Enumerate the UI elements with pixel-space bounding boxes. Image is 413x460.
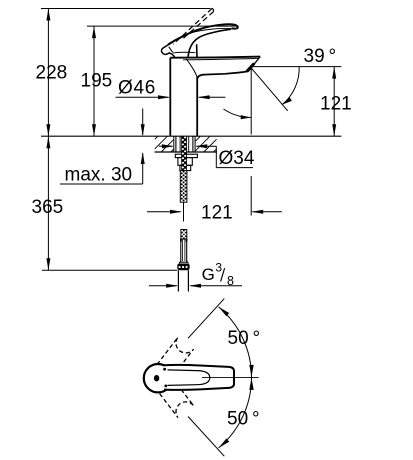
swivel arc upper arrow at slant xyxy=(219,307,230,316)
faucet body right edge xyxy=(196,77,198,136)
swivel arc lower arrow at slant xyxy=(219,439,230,448)
dimension G38 left arrow line xyxy=(149,285,177,287)
svg-text:Ø34: Ø34 xyxy=(219,148,255,169)
wire 195 extension line xyxy=(87,25,236,27)
dimension 121 bottom arrow xyxy=(332,124,336,136)
counter deck bottom line xyxy=(155,151,218,153)
dimension D34 right arrow line xyxy=(196,145,216,147)
spout top inner line xyxy=(183,58,258,59)
dimension 121 top arrow xyxy=(332,67,336,79)
dimension D34 leader corner xyxy=(215,146,217,167)
dimension 228 top arrow xyxy=(46,9,50,21)
handle lever inner line xyxy=(193,28,232,32)
rotated handle dashed lower xyxy=(155,376,193,417)
svg-text:228: 228 xyxy=(36,63,68,84)
handle top view lever outline xyxy=(164,365,234,390)
hose thin section xyxy=(183,202,185,221)
dimension D46 right arrow xyxy=(198,95,210,99)
dimension 195 top arrow xyxy=(92,26,96,38)
spout outlet vertical extension line upper xyxy=(250,68,252,135)
svg-text:50 °: 50 ° xyxy=(228,328,261,349)
svg-text:50 °: 50 ° xyxy=(227,409,260,430)
dimension D46 right arrow line xyxy=(199,96,226,98)
threaded stud xyxy=(181,136,187,171)
dimension 121 bottom right arrow line xyxy=(253,211,282,213)
raised handle dashed upper edge xyxy=(173,8,212,44)
hose connector tube xyxy=(179,239,189,263)
mounting nut lower xyxy=(180,165,191,170)
spout underside with fillet xyxy=(197,71,247,79)
connector knurled nut xyxy=(177,264,189,271)
braided hose lower xyxy=(181,230,187,240)
spout front face xyxy=(248,57,260,72)
dimension D34 left arrow xyxy=(162,144,174,148)
swivel arc lower xyxy=(219,377,252,448)
dimension max30 leader lower xyxy=(142,153,144,184)
svg-text:Ø46: Ø46 xyxy=(118,78,156,99)
handle skirt line xyxy=(173,51,196,54)
dimension G38 left arrow xyxy=(166,284,178,288)
dimension 228 line xyxy=(47,9,49,137)
swivel arc lower arrow at centerline xyxy=(249,378,253,390)
dimension max30 lower arrow xyxy=(141,152,145,164)
stream direction arc arrow xyxy=(241,115,251,119)
dimension D34 underline xyxy=(216,167,253,169)
handle grip curl xyxy=(161,45,174,58)
svg-text:8: 8 xyxy=(227,274,234,288)
handle centerline xyxy=(202,376,259,378)
handle top view slot xyxy=(154,375,159,381)
swivel arc upper arrow at centerline xyxy=(249,365,253,377)
rotated handle dashed upper xyxy=(155,337,193,378)
raised handle dashed tip xyxy=(212,8,214,11)
handle neck right edge xyxy=(196,44,198,57)
dimension 195 bottom arrow xyxy=(92,124,96,136)
svg-text:G: G xyxy=(202,265,215,284)
wire top extension line (228 level) xyxy=(41,8,211,10)
stream direction arc xyxy=(224,109,251,118)
handle lever underside xyxy=(188,29,231,57)
dimension max30 upper arrow xyxy=(141,124,145,136)
39 degree slant reference line xyxy=(251,68,288,111)
aerator slot xyxy=(247,63,254,71)
swivel slant line lower xyxy=(188,417,224,457)
dimension max30 underline xyxy=(60,183,143,185)
dimension 365 bottom arrow xyxy=(46,258,50,270)
deck hatching right xyxy=(195,136,216,152)
svg-text:3: 3 xyxy=(215,261,222,275)
bottom extension line (365 level) xyxy=(42,269,177,271)
handle top view inner face xyxy=(168,370,210,386)
svg-text:195: 195 xyxy=(81,71,113,92)
handle top view dot upper xyxy=(163,368,166,371)
dimension 365 line xyxy=(47,136,49,270)
raised handle dashed lower edge xyxy=(182,12,214,41)
deck hole edges xyxy=(173,136,175,152)
spout outlet horizontal reference line xyxy=(251,66,341,68)
mounting nut upper xyxy=(178,158,192,166)
dimension 121 vertical line xyxy=(333,67,335,137)
svg-text:max. 30: max. 30 xyxy=(65,165,133,186)
dimension D34 left arrow line xyxy=(159,145,173,147)
handle top view dot lower xyxy=(164,385,167,388)
dimension 121 bottom left arrow xyxy=(170,210,182,214)
dimension 195 line xyxy=(93,26,95,136)
dimension 121 bottom right arrow xyxy=(251,210,263,214)
svg-text:39 °: 39 ° xyxy=(304,46,337,67)
dimension D46 left arrow xyxy=(158,95,170,99)
body spout junction curve xyxy=(186,59,197,78)
dimension 228 bottom arrow xyxy=(46,124,50,136)
handle top view head xyxy=(144,364,172,392)
faucet body left edge xyxy=(169,58,171,137)
G38 thread cylinder xyxy=(177,270,179,291)
dimension 365 top arrow xyxy=(46,136,50,148)
dimension D34 right arrow xyxy=(195,144,207,148)
dimension G38 right arrow line / underline xyxy=(190,285,242,287)
dimension D46 leader line xyxy=(116,96,169,98)
swivel slant line upper xyxy=(188,299,224,339)
svg-text:121: 121 xyxy=(320,94,352,115)
39 degree angle arc xyxy=(282,66,299,104)
spout top line xyxy=(170,57,260,58)
spout outlet vertical extension line lower xyxy=(250,176,252,216)
counter deck top line xyxy=(41,135,341,137)
39 degree arc arrow xyxy=(282,97,292,104)
deck hatching left xyxy=(155,136,174,152)
braided hose upper xyxy=(180,171,187,203)
svg-text:365: 365 xyxy=(32,197,64,218)
dimension max30 leader upper xyxy=(142,109,144,136)
dimension 121 bottom left arrow line xyxy=(147,211,181,213)
handle lever top edge xyxy=(168,24,238,44)
handle grip inner detail xyxy=(169,47,173,52)
svg-text:121: 121 xyxy=(201,203,233,224)
mounting flange washer xyxy=(175,154,197,157)
swivel arc upper xyxy=(219,307,252,378)
dimension G38 right arrow xyxy=(189,284,201,288)
mounting shank tubes xyxy=(175,136,177,152)
